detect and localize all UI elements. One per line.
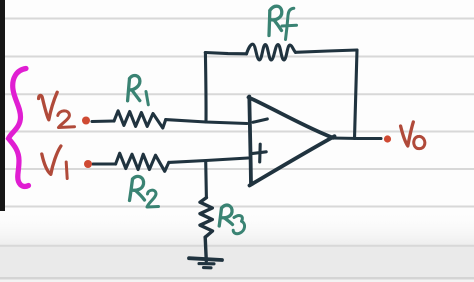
node V1 terminal dot <box>84 160 92 168</box>
op-amp plus pin <box>252 144 266 162</box>
wire R1 to inverting input <box>166 120 247 124</box>
node V2 terminal dot <box>82 117 90 125</box>
op-amp minus pin <box>253 119 267 122</box>
wire feedback left vertical <box>204 53 208 123</box>
label V1 <box>42 146 61 174</box>
resistor R1 <box>114 111 166 128</box>
label V2 <box>39 92 58 120</box>
bottom gray band <box>0 247 474 282</box>
op-amp U1 <box>249 97 335 186</box>
label R2 <box>130 176 145 200</box>
label Rf <box>269 6 282 35</box>
label R3 <box>219 205 232 226</box>
wire V2 to R1 <box>92 119 114 123</box>
resistor R3 <box>200 198 213 238</box>
wire node to R3 <box>204 161 208 198</box>
wire V1 to R2 <box>93 162 116 165</box>
magenta brace <box>9 69 29 187</box>
label Vo <box>401 122 414 146</box>
left dark bar <box>0 0 5 211</box>
ground <box>189 258 222 260</box>
wire output <box>332 136 381 140</box>
resistor Rf <box>247 44 296 60</box>
wire feedback right vertical <box>355 50 358 139</box>
wire R3 to ground <box>205 237 206 261</box>
wire top horizontal left of Rf <box>205 53 246 54</box>
wire top horizontal right of Rf <box>296 50 358 52</box>
resistor R2 <box>116 153 169 171</box>
node Vo terminal dot <box>384 135 391 142</box>
label R1 <box>128 75 140 100</box>
wire R2 to non-inverting input <box>169 158 248 162</box>
